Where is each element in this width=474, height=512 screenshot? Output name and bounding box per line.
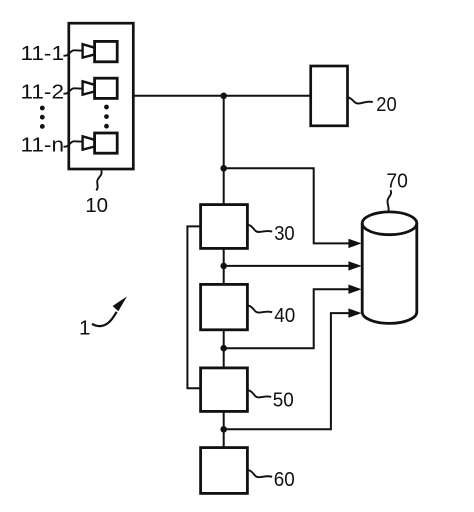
wire from bus junction to storage arrow 1 — [224, 168, 350, 243]
arrowhead into storage 4 — [348, 308, 361, 317]
figure pointer arrow 1 — [92, 312, 117, 326]
ellipsis dots label column — [40, 106, 45, 129]
leader squiggle label 10 — [96, 170, 101, 190]
leader squiggle label 50 — [248, 390, 271, 397]
wire from junction up to storage arrow 4 — [224, 313, 350, 429]
wire box 50 to box 60 — [223, 411, 225, 447]
arrowhead into storage 3 — [348, 285, 361, 294]
svg-text:11-1: 11-1 — [21, 42, 64, 65]
camera 11-n icon — [83, 133, 118, 153]
leader squiggle label 30 — [248, 225, 272, 232]
junction node below box 30 — [220, 263, 227, 270]
wire bus from block 10 to box 20 — [133, 95, 310, 97]
wire from junction to storage arrow 2 — [224, 265, 350, 267]
junction node feeding storage line 1 — [220, 165, 227, 172]
leader line label 11-1 — [64, 50, 83, 55]
wire from junction up to storage arrow 3 — [224, 289, 350, 348]
vertical bus wire down to box 30 — [223, 96, 225, 205]
junction node on bus — [220, 93, 227, 100]
svg-text:10: 10 — [85, 194, 108, 217]
svg-text:1: 1 — [79, 317, 90, 340]
box 40 — [201, 284, 248, 329]
camera 11-2 icon — [83, 78, 118, 98]
wire box 30 to box 40 — [223, 248, 225, 284]
bypass wire box 30 left to box 50 left — [187, 226, 200, 388]
leader squiggle label 40 — [248, 305, 272, 312]
camera 11-1 icon — [83, 41, 118, 61]
leader squiggle label 60 — [248, 470, 272, 477]
junction node below box 50 — [220, 426, 227, 433]
leader squiggle label 70 — [387, 190, 391, 211]
svg-text:60: 60 — [274, 468, 295, 491]
box 60 — [201, 448, 248, 494]
wire box 40 to box 50 — [223, 330, 225, 368]
box 20 — [311, 66, 348, 126]
leader line label 11-2 — [64, 88, 83, 93]
svg-text:70: 70 — [386, 169, 408, 192]
box 30 — [201, 205, 248, 249]
arrowhead into storage 2 — [348, 261, 361, 270]
leader line label 11-n — [64, 141, 83, 146]
box 50 — [201, 368, 248, 412]
arrowhead into storage 1 — [348, 239, 361, 248]
leader squiggle label 20 — [348, 97, 373, 103]
block 10 camera array enclosure — [69, 23, 134, 169]
junction node below box 40 — [220, 345, 227, 352]
svg-text:20: 20 — [376, 93, 397, 116]
svg-text:50: 50 — [273, 389, 294, 412]
storage cylinder 70 — [362, 212, 417, 323]
svg-text:11-n: 11-n — [21, 133, 64, 156]
ellipsis dots inside block 10 — [104, 105, 109, 129]
svg-text:11-2: 11-2 — [21, 81, 64, 104]
svg-text:40: 40 — [274, 304, 295, 327]
svg-text:30: 30 — [274, 222, 295, 245]
